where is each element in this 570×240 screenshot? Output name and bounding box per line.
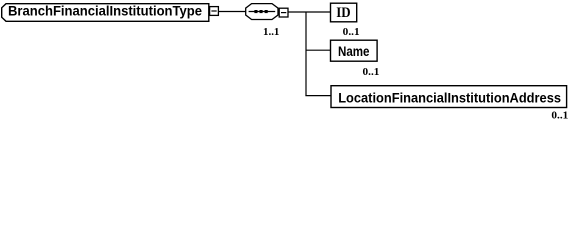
element Name box [331, 40, 378, 61]
wire: vertical trunk [305, 12, 307, 96]
expand button (minus) on type box [210, 7, 219, 16]
svg-text:1..1: 1..1 [263, 26, 279, 38]
wire: sequence to ID branch [288, 11, 331, 13]
svg-text:0..1: 0..1 [343, 26, 360, 38]
sequence compositor octagon [246, 4, 278, 20]
element ID box [331, 3, 357, 22]
wire: branch to LocationFinancialInstitutionAddress [305, 95, 331, 97]
wire: type box to sequence [219, 11, 246, 13]
svg-text:LocationFinancialInstitutionAd: LocationFinancialInstitutionAddress [338, 89, 561, 105]
svg-text:BranchFinancialInstitutionType: BranchFinancialInstitutionType [8, 3, 202, 19]
svg-text:ID: ID [336, 4, 350, 21]
svg-text:0..1: 0..1 [551, 110, 568, 122]
wire: branch to Name [306, 49, 331, 51]
svg-text:Name: Name [338, 43, 370, 59]
expand button (minus) on sequence [279, 8, 288, 17]
element LocationFinancialInstitutionAddress box [331, 86, 567, 108]
svg-text:0..1: 0..1 [363, 66, 380, 78]
complexType BranchFinancialInstitutionType box [2, 3, 209, 22]
